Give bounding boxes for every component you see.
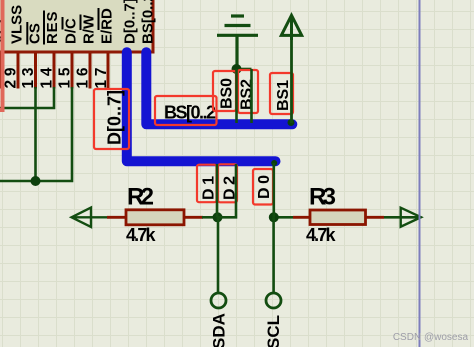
svg-text:CS: CS: [27, 23, 44, 44]
pin stub 14 (RES): [53, 53, 56, 89]
junction dot BS1 at bus end: [288, 119, 295, 126]
highlight box (cut off at left edge): [0, 0, 3, 110]
terminal circle SDA: [211, 293, 226, 308]
bus D[0..7] (blue): [127, 52, 276, 161]
svg-text:BS1: BS1: [275, 80, 292, 111]
svg-text:D0: D0: [256, 175, 273, 199]
wire R2 to junction: [202, 216, 218, 219]
resistor R3: [293, 210, 384, 225]
svg-text:SDA: SDA: [210, 313, 229, 347]
IC U1 body (partial, top-left): [0, 0, 153, 52]
pin name D/C: [63, 17, 80, 44]
pin stub 13 (CS): [34, 53, 37, 89]
wire R3 to right terminal: [384, 216, 420, 219]
junction dot D0 at bus end: [271, 160, 277, 166]
svg-text:4.7k: 4.7k: [126, 225, 156, 245]
terminal arrow left (R2 input): [72, 208, 110, 227]
pin stub 17 (E/RD): [107, 53, 110, 89]
wire pin15 L to left edge: [0, 87, 72, 181]
net label BS2 with highlight box: [238, 70, 258, 113]
terminal arrow right (R3 output): [401, 208, 421, 227]
net label D2 with highlight box: [218, 164, 239, 202]
svg-text:BS2: BS2: [239, 79, 256, 110]
junction dot at ground stem: [232, 64, 242, 74]
net label D1 with highlight box: [197, 165, 218, 203]
wire SDA node down to terminal: [217, 217, 220, 293]
wire pin13 vertical to junction: [34, 87, 37, 181]
svg-text:BS[0..2: BS[0..2: [164, 102, 216, 122]
pin name E/RD: [99, 8, 116, 44]
sheet border line (right): [419, 0, 421, 347]
wire D0 (bus end down to junction): [272, 163, 275, 217]
svg-text:4.7k: 4.7k: [306, 225, 336, 245]
wire R3 junction: [274, 216, 293, 219]
junction dot SCL node: [269, 212, 279, 222]
svg-text:BS[0..2]: BS[0..2]: [140, 0, 157, 44]
net label D0 with highlight box: [253, 169, 273, 205]
svg-text:R3: R3: [309, 184, 336, 211]
junction dot SDA node: [213, 212, 223, 222]
svg-text:RES: RES: [44, 12, 61, 45]
svg-text:D[0..7]: D[0..7]: [122, 0, 139, 44]
svg-text:VLSS: VLSS: [9, 5, 26, 44]
svg-text:E/RD: E/RD: [99, 8, 116, 44]
terminal arrow up (BS1 / VCC input): [281, 15, 301, 40]
pin name CS (active low): [27, 22, 44, 45]
bus BS[0..2] (blue): [146, 52, 292, 124]
wire SCL node down to terminal: [272, 217, 275, 293]
wire D1 (bus to junction): [216, 164, 219, 217]
pin stub 15 (D/C): [71, 53, 74, 89]
wire BS1 (arrow stem to bus): [290, 36, 293, 123]
pin name RES (active low): [44, 11, 61, 45]
resistor R2: [107, 210, 203, 225]
net label BS1 with highlight box: [270, 73, 293, 114]
watermark: [393, 332, 468, 343]
svg-text:D1: D1: [201, 176, 218, 200]
svg-text:R/W: R/W: [81, 14, 98, 44]
ground symbol: [217, 16, 258, 69]
pin stub 29 (VLSS): [17, 53, 20, 89]
pin name R/W: [81, 14, 98, 44]
net label BS[0..2] with highlight box: [155, 96, 217, 125]
wire BS0 (ground to bus): [235, 69, 238, 123]
net label D[0..7] with highlight box: [94, 89, 129, 149]
net label BS0 with highlight box: [213, 71, 236, 111]
svg-text:D/C: D/C: [63, 18, 80, 44]
svg-text:D[0..7]: D[0..7]: [105, 90, 125, 145]
wire jog ground to BS2: [237, 68, 252, 71]
terminal circle SCL: [266, 293, 281, 308]
wire BS2 (jog to bus): [250, 69, 253, 123]
pin stub VCC (partial at left edge): [0, 53, 2, 89]
junction dot (pin13 joins pin15 wire): [31, 176, 41, 186]
wire pin14 L to left edge: [0, 87, 54, 108]
svg-text:R2: R2: [127, 184, 154, 211]
svg-text:SCL: SCL: [264, 315, 283, 347]
pin stub 16 (R/W): [89, 53, 92, 89]
wire D2 (bus to junction, L-shape): [217, 164, 236, 217]
svg-text:BS0: BS0: [219, 78, 236, 109]
